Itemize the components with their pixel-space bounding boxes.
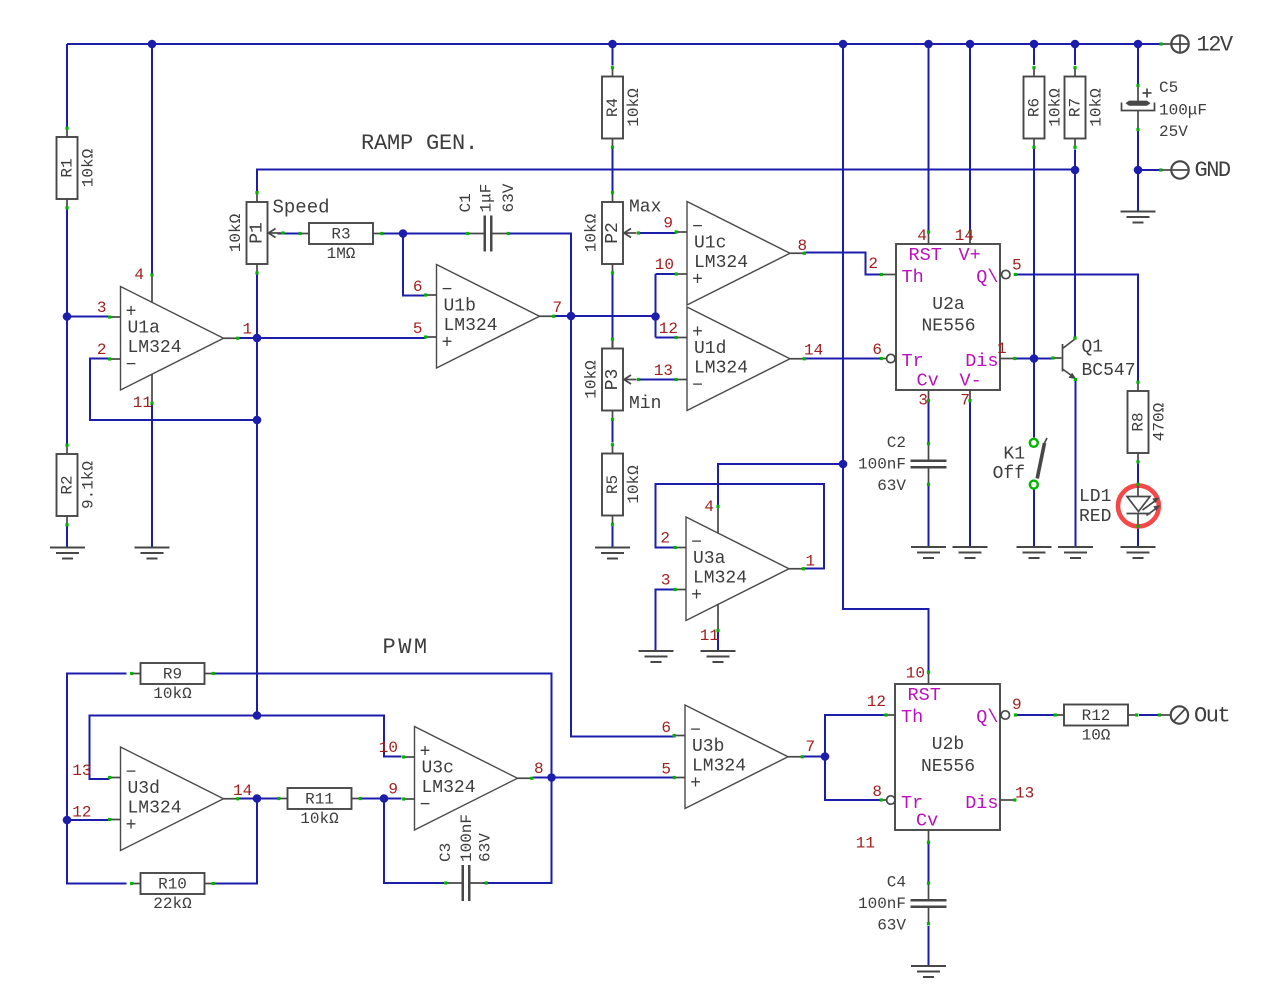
svg-text:100nF: 100nF xyxy=(858,456,906,474)
wire R1 to R2 node xyxy=(66,210,68,445)
timer U2b NE556 xyxy=(880,671,1017,844)
ground under U1a xyxy=(135,548,170,559)
wire P2 bottom to P3 top xyxy=(612,273,614,347)
svg-text:10kΩ: 10kΩ xyxy=(153,685,192,703)
C3 value label xyxy=(437,814,495,862)
C1 value label xyxy=(457,183,518,212)
svg-text:LM324: LM324 xyxy=(694,253,748,273)
junction dots on 12V rail xyxy=(148,40,1143,49)
svg-text:6: 6 xyxy=(661,719,671,737)
svg-text:Dis: Dis xyxy=(965,793,998,814)
svg-text:R6: R6 xyxy=(1026,98,1044,117)
wire C3 to U3c output xyxy=(483,778,552,884)
svg-text:6: 6 xyxy=(413,278,423,296)
terminal Out xyxy=(1171,706,1188,723)
ground under U2a pin 7 xyxy=(953,547,988,558)
svg-text:10kΩ: 10kΩ xyxy=(227,213,245,252)
svg-text:+: + xyxy=(692,271,703,291)
ground under K1 xyxy=(1017,547,1052,558)
capacitor C1 xyxy=(466,216,510,252)
wire K1 top lead xyxy=(1033,359,1035,438)
wire U2a Dis to K1 xyxy=(1016,358,1034,360)
wire C5 ground lead xyxy=(1137,170,1139,211)
wire P3 wiper to U1d pin 13 xyxy=(640,379,676,381)
svg-text:5: 5 xyxy=(661,761,671,779)
svg-text:Cv: Cv xyxy=(917,371,939,392)
svg-text:8: 8 xyxy=(872,783,882,801)
svg-text:10: 10 xyxy=(906,665,925,683)
svg-text:10: 10 xyxy=(379,739,398,757)
svg-text:U3b: U3b xyxy=(692,737,724,757)
svg-text:1μF: 1μF xyxy=(478,184,496,213)
U3a power pin stubs xyxy=(716,505,719,632)
svg-text:Q\: Q\ xyxy=(976,707,998,728)
svg-text:LM324: LM324 xyxy=(694,358,748,378)
svg-text:R5: R5 xyxy=(604,475,622,494)
svg-text:U2b: U2b xyxy=(932,735,964,755)
ground under C4 xyxy=(911,966,946,977)
wire U2b Cv to C4 xyxy=(928,843,930,883)
wire R12 to Out terminal xyxy=(1139,714,1159,716)
svg-text:Dis: Dis xyxy=(965,351,998,372)
wire 12V top rail xyxy=(67,43,1160,45)
svg-text:LM324: LM324 xyxy=(128,338,182,358)
svg-text:1: 1 xyxy=(806,553,816,571)
ground under R2 xyxy=(50,548,85,559)
svg-text:12: 12 xyxy=(72,804,91,822)
svg-text:−: − xyxy=(420,796,431,816)
svg-text:5: 5 xyxy=(1012,257,1022,275)
svg-text:12: 12 xyxy=(867,693,886,711)
op-amp U1a xyxy=(108,287,239,391)
node Dis/K1 xyxy=(1030,354,1039,363)
wire U3b output node xyxy=(803,756,825,758)
wire U1a out to U1b pin 5 xyxy=(257,337,426,339)
wire Q1 collector xyxy=(1074,170,1076,338)
wire R1 top to rail xyxy=(66,44,68,129)
wire R11 right to U3c pin 9 xyxy=(361,798,402,800)
svg-text:9: 9 xyxy=(388,781,398,799)
svg-text:R9: R9 xyxy=(163,666,182,684)
wire P1 bottom bus x=257 xyxy=(256,274,258,716)
LD1 label xyxy=(1079,487,1111,527)
potentiometer P2 xyxy=(602,191,640,275)
wire U1a pin 2 feedback xyxy=(90,359,257,421)
op-amp U3a xyxy=(674,517,805,621)
ground under C5 xyxy=(1121,212,1156,223)
svg-text:1: 1 xyxy=(997,340,1007,358)
resistor R4 xyxy=(602,66,623,149)
svg-text:Off: Off xyxy=(993,464,1025,484)
svg-text:6: 6 xyxy=(872,341,882,359)
svg-text:11: 11 xyxy=(133,394,152,412)
svg-text:2: 2 xyxy=(868,255,878,273)
wire P1 wiper to R3 xyxy=(278,233,300,235)
svg-text:−: − xyxy=(692,376,703,396)
node U3d pin 12 xyxy=(63,816,72,825)
svg-text:R4: R4 xyxy=(604,98,622,117)
wire R3 to node 403 xyxy=(383,233,404,235)
wire U2b Q-bar to R12 xyxy=(1017,714,1055,716)
wire R9 left to U3d bus xyxy=(67,674,127,884)
resistor R10 xyxy=(130,873,215,894)
svg-text:R12: R12 xyxy=(1082,707,1111,725)
junction dot collector/R7 xyxy=(1071,166,1080,175)
wire U3d pin 12 xyxy=(67,819,110,821)
op-amp U1d xyxy=(675,307,806,411)
svg-text:10Ω: 10Ω xyxy=(1082,727,1111,745)
svg-text:LM324: LM324 xyxy=(128,798,182,818)
svg-text:LM324: LM324 xyxy=(692,756,746,776)
node U1b out xyxy=(567,312,576,321)
svg-text:3: 3 xyxy=(661,572,671,590)
svg-text:1MΩ: 1MΩ xyxy=(327,245,356,263)
svg-text:7: 7 xyxy=(806,738,816,756)
capacitor C5 xyxy=(1122,84,1155,131)
terminal GND xyxy=(1171,161,1188,178)
svg-text:U3a: U3a xyxy=(693,549,726,569)
K1 label xyxy=(993,445,1025,485)
node 12V/U3a pin4 xyxy=(839,460,848,469)
ground under Q1 xyxy=(1058,547,1093,558)
Q1 label xyxy=(1082,338,1136,382)
svg-text:LM324: LM324 xyxy=(444,316,498,336)
svg-text:Th: Th xyxy=(902,267,924,288)
svg-text:Out: Out xyxy=(1194,704,1229,729)
svg-text:U3c: U3c xyxy=(422,758,454,778)
svg-text:25V: 25V xyxy=(1159,123,1188,141)
node R11/U3c pin 9 xyxy=(380,794,389,803)
wire C1 to U1b output xyxy=(509,234,572,317)
svg-text:12: 12 xyxy=(659,320,678,338)
wire rail to 12V terminal xyxy=(1159,42,1162,45)
svg-text:R2: R2 xyxy=(59,475,77,494)
node U3c out xyxy=(547,773,556,782)
svg-text:3: 3 xyxy=(97,299,107,317)
wire R7 bottom xyxy=(1074,150,1076,170)
svg-text:Min: Min xyxy=(629,394,661,414)
svg-text:RST: RST xyxy=(908,685,941,706)
svg-text:P2: P2 xyxy=(603,222,623,244)
wire U2a pin 7 to ground xyxy=(969,401,971,547)
wire R9 right to U3c output xyxy=(215,674,552,778)
svg-text:RED: RED xyxy=(1079,507,1111,527)
wire R6 bottom to Dis node xyxy=(1033,147,1035,359)
wire U3d out to R10 right xyxy=(215,799,258,884)
svg-text:9: 9 xyxy=(1012,696,1022,714)
svg-text:10kΩ: 10kΩ xyxy=(1047,88,1065,127)
svg-text:RAMP GEN.: RAMP GEN. xyxy=(361,131,478,156)
wire U3a pin 2 feedback loop xyxy=(656,484,825,569)
svg-text:Speed: Speed xyxy=(273,197,330,219)
wire U3a pin 11 to ground xyxy=(717,632,719,651)
svg-text:−: − xyxy=(126,356,137,376)
potentiometer P3 xyxy=(602,338,640,422)
svg-text:Q1: Q1 xyxy=(1082,338,1104,358)
C4 value label xyxy=(858,874,906,935)
potentiometer P1 xyxy=(247,191,285,275)
ground under U3a pin 11 xyxy=(701,651,736,662)
svg-text:C3: C3 xyxy=(437,843,455,862)
ground under R5 xyxy=(595,548,630,559)
svg-text:10kΩ: 10kΩ xyxy=(1088,88,1106,127)
junction dot C5/GND xyxy=(1134,166,1143,175)
node U1a out xyxy=(253,334,262,343)
svg-text:K1: K1 xyxy=(1003,445,1025,465)
wire U1a output xyxy=(237,337,257,339)
svg-text:14: 14 xyxy=(233,782,252,800)
wire node 403 to C1 xyxy=(403,233,466,235)
ground under LD1 xyxy=(1121,547,1156,558)
svg-text:10kΩ: 10kΩ xyxy=(583,360,601,399)
wire U2a pin 4 to rail xyxy=(928,44,930,232)
svg-text:10kΩ: 10kΩ xyxy=(625,465,643,504)
node U3b out xyxy=(821,752,830,761)
wire U2a Cv to C2 xyxy=(928,401,930,444)
svg-text:5: 5 xyxy=(413,320,423,338)
svg-text:100nF: 100nF xyxy=(458,814,476,862)
timer U2a NE556 xyxy=(880,230,1017,402)
wire LD1 to ground xyxy=(1137,527,1139,547)
node U3d out xyxy=(253,794,262,803)
wire R6 top to rail xyxy=(1033,44,1035,65)
svg-text:LM324: LM324 xyxy=(422,778,476,798)
resistor R5 xyxy=(602,443,623,526)
svg-text:R10: R10 xyxy=(158,876,187,894)
svg-text:2: 2 xyxy=(97,341,107,359)
svg-text:10kΩ: 10kΩ xyxy=(80,148,98,187)
svg-text:14: 14 xyxy=(955,227,974,245)
svg-text:U1b: U1b xyxy=(444,296,476,316)
terminal 12V xyxy=(1171,35,1189,53)
wire U1b out down to U3b pin 6 xyxy=(571,316,676,737)
svg-text:3: 3 xyxy=(918,392,928,410)
svg-text:GND: GND xyxy=(1195,158,1231,183)
svg-text:63V: 63V xyxy=(477,833,495,862)
svg-text:8: 8 xyxy=(798,237,808,255)
U2b pin names xyxy=(901,685,999,832)
resistor R9 xyxy=(130,663,215,684)
svg-text:4: 4 xyxy=(134,266,144,284)
svg-text:8: 8 xyxy=(534,760,544,778)
svg-text:U3d: U3d xyxy=(128,779,160,799)
svg-text:100μF: 100μF xyxy=(1159,102,1207,120)
op-amp U3d xyxy=(108,747,239,851)
node U1c/U1d inputs xyxy=(651,312,660,321)
svg-text:2: 2 xyxy=(660,530,670,548)
svg-text:P3: P3 xyxy=(603,369,623,391)
wire R8 to LD1 xyxy=(1137,464,1139,485)
ground under U3a pin 3 xyxy=(639,651,674,662)
svg-text:LD1: LD1 xyxy=(1079,487,1111,507)
svg-text:4: 4 xyxy=(917,227,927,245)
svg-text:U1d: U1d xyxy=(694,339,726,359)
wire U3a pin 3 to ground xyxy=(656,590,675,651)
op-amp U1b xyxy=(424,265,555,369)
wire U3d out to R11 xyxy=(238,798,279,800)
wire R2 bottom to ground xyxy=(66,526,68,547)
svg-text:U1c: U1c xyxy=(694,233,726,253)
resistor R12 xyxy=(1054,705,1139,726)
capacitor C4 xyxy=(911,882,947,926)
svg-text:NE556: NE556 xyxy=(921,317,975,337)
svg-text:R3: R3 xyxy=(331,226,350,244)
wire R7 top to rail xyxy=(1074,44,1076,65)
op-amp U3b xyxy=(673,705,804,809)
svg-text:P1: P1 xyxy=(248,222,268,244)
svg-text:C2: C2 xyxy=(887,434,906,452)
ground under C2 xyxy=(911,547,946,558)
resistor R11 xyxy=(277,788,362,809)
wire 843 to U2b RST xyxy=(843,464,929,672)
svg-text:22kΩ: 22kΩ xyxy=(153,895,192,913)
wire U3d pin 13 net xyxy=(90,716,402,780)
wire C4 to ground xyxy=(928,926,930,965)
wire R5 bottom to ground xyxy=(612,526,614,547)
wire 12V branch x=843 xyxy=(842,44,844,464)
svg-text:10: 10 xyxy=(655,256,674,274)
LED LD1 xyxy=(1118,483,1161,528)
svg-text:+: + xyxy=(690,774,701,794)
wire U3b out to U2b Th xyxy=(825,715,886,757)
wire R4 top to rail xyxy=(612,44,614,66)
svg-text:1: 1 xyxy=(243,321,253,339)
C2 value label xyxy=(858,434,906,495)
U2a pin names xyxy=(902,245,999,392)
svg-text:10kΩ: 10kΩ xyxy=(300,810,339,828)
wire P2 wiper to U1c pin 9 xyxy=(640,232,676,234)
svg-text:U2a: U2a xyxy=(932,295,965,315)
op-amp U1c xyxy=(675,202,806,306)
svg-text:R8: R8 xyxy=(1130,412,1148,431)
wire U3c out to U3b pin 5 xyxy=(533,777,676,779)
svg-text:+: + xyxy=(126,816,137,836)
resistor R2 xyxy=(57,444,78,527)
svg-text:13: 13 xyxy=(72,762,91,780)
svg-text:10kΩ: 10kΩ xyxy=(625,88,643,127)
svg-text:U1a: U1a xyxy=(128,318,161,338)
capacitor C3 xyxy=(444,865,488,901)
svg-text:11: 11 xyxy=(700,627,719,645)
node ramp to U3c pin 10 xyxy=(253,711,262,720)
wire K1 node to Q1 base xyxy=(1034,358,1053,360)
wire K1 bottom to ground xyxy=(1033,489,1035,547)
node R3/C1/U1b- xyxy=(399,229,408,238)
svg-text:Max: Max xyxy=(629,198,661,218)
svg-text:RST: RST xyxy=(909,245,942,266)
svg-text:Th: Th xyxy=(901,707,923,728)
svg-text:10kΩ: 10kΩ xyxy=(583,213,601,252)
transistor Q1 xyxy=(1051,336,1077,381)
svg-text:470Ω: 470Ω xyxy=(1151,402,1169,441)
resistor R6 xyxy=(1024,66,1045,149)
svg-text:7: 7 xyxy=(960,392,970,410)
wire Q1 emitter to ground xyxy=(1075,381,1077,547)
svg-text:100nF: 100nF xyxy=(858,895,906,913)
svg-text:NE556: NE556 xyxy=(921,757,975,777)
wire U1d out to U2a Tr xyxy=(805,358,881,360)
wire U1a pin 4 to rail xyxy=(151,44,153,275)
svg-text:R7: R7 xyxy=(1067,98,1085,117)
wire C2 to ground xyxy=(928,486,930,547)
svg-text:C5: C5 xyxy=(1159,79,1178,97)
svg-text:C4: C4 xyxy=(887,874,906,892)
resistor R1 xyxy=(57,127,78,210)
wire U3a pin 4 to 12V branch xyxy=(718,464,843,506)
svg-text:63V: 63V xyxy=(877,917,906,935)
wire C5 bottom to GND terminal xyxy=(1138,130,1160,171)
wire node to U1a pin 3 xyxy=(67,316,110,318)
svg-text:BC547: BC547 xyxy=(1082,361,1136,381)
svg-text:PWM: PWM xyxy=(383,635,430,660)
svg-text:C1: C1 xyxy=(457,193,475,212)
resistor R3 xyxy=(299,223,384,244)
wire node 403 to U1b pin 6 xyxy=(403,234,426,296)
resistor R7 xyxy=(1065,66,1086,149)
wire U3b out to U2b Tr xyxy=(825,757,881,801)
svg-text:LM324: LM324 xyxy=(693,568,747,588)
resistor R8 xyxy=(1128,381,1149,464)
svg-text:13: 13 xyxy=(654,362,673,380)
wire collector node row y=170 xyxy=(257,170,1075,193)
svg-text:14: 14 xyxy=(804,342,823,360)
wire U2a Q-bar to R8 xyxy=(1017,275,1139,382)
wire R4 bottom to P2 top xyxy=(612,147,614,193)
node U1a feedback xyxy=(253,416,262,425)
svg-text:R1: R1 xyxy=(59,158,77,177)
wire U1c out to U2a Th xyxy=(805,253,881,275)
U1a power pin stubs xyxy=(150,273,153,405)
capacitor C2 xyxy=(911,442,947,486)
wire C5 top to rail xyxy=(1137,44,1139,85)
svg-text:+: + xyxy=(442,334,453,354)
svg-text:13: 13 xyxy=(1015,785,1034,803)
wire U2a pin 14 to rail xyxy=(969,44,971,232)
svg-text:11: 11 xyxy=(856,835,875,853)
svg-text:63V: 63V xyxy=(500,183,518,212)
svg-text:+: + xyxy=(691,586,702,606)
svg-text:V+: V+ xyxy=(959,245,981,266)
svg-text:7: 7 xyxy=(553,299,563,317)
svg-text:63V: 63V xyxy=(877,477,906,495)
op-amp U3c xyxy=(402,727,533,831)
svg-text:Cv: Cv xyxy=(916,811,938,832)
node R1/R2/U1a+ xyxy=(63,312,72,321)
wire P3 bottom to R5 xyxy=(612,420,614,443)
svg-text:V-: V- xyxy=(960,371,982,392)
wire U1a pin 11 to ground xyxy=(151,404,153,547)
svg-text:R11: R11 xyxy=(305,791,334,809)
wire U1b output row xyxy=(554,315,656,317)
svg-text:9.1kΩ: 9.1kΩ xyxy=(80,461,98,509)
switch K1 xyxy=(1030,438,1047,489)
svg-text:9: 9 xyxy=(663,215,673,233)
wire U1c/U1d input pair xyxy=(655,274,657,338)
wire pin 9 node down to C3 xyxy=(384,799,444,884)
svg-text:Q\: Q\ xyxy=(976,267,998,288)
C5 value label xyxy=(1159,79,1207,141)
svg-text:Tr: Tr xyxy=(902,351,924,372)
svg-text:4: 4 xyxy=(704,498,714,516)
svg-text:12V: 12V xyxy=(1197,33,1234,58)
